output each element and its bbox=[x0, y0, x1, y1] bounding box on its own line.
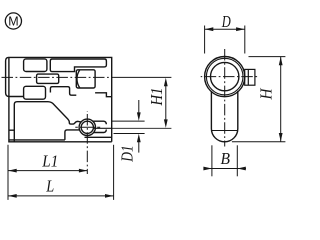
left tab bbox=[6, 57, 24, 96]
top rect T1 bbox=[24, 59, 47, 72]
bore circle bbox=[211, 62, 239, 90]
screw ball arc bbox=[77, 70, 80, 88]
stem chord bbox=[212, 130, 238, 132]
head outer circle bbox=[205, 57, 245, 97]
slot mid line inside body bbox=[94, 127, 112, 129]
center rect C1 bbox=[37, 74, 59, 83]
dimension D1 arrows bbox=[138, 100, 140, 153]
svg-text:H1: H1 bbox=[147, 88, 166, 107]
svg-text:L: L bbox=[45, 176, 54, 195]
svg-text:M: M bbox=[8, 14, 18, 28]
svg-text:D1: D1 bbox=[118, 145, 137, 162]
extension lines for D1 bbox=[112, 121, 172, 133]
boss outer circle bbox=[79, 119, 95, 135]
stepped bar T2 bbox=[50, 59, 106, 72]
centerlines right view bbox=[201, 49, 259, 147]
pocket diagonal + saddle bbox=[48, 102, 81, 124]
svg-text:D: D bbox=[221, 12, 231, 31]
dimension L1 bbox=[8, 145, 114, 200]
svg-text:B: B bbox=[220, 149, 230, 168]
dimension D bbox=[205, 26, 245, 54]
svg-text:H: H bbox=[257, 88, 276, 101]
material symbol M bbox=[5, 13, 21, 29]
bottom-left tick bbox=[9, 129, 14, 131]
svg-text:L1: L1 bbox=[41, 152, 58, 171]
head ring bbox=[206, 58, 243, 95]
dimension B bbox=[204, 145, 246, 176]
hole inner circle bbox=[81, 121, 93, 133]
slot top line right of boss, rounded end bbox=[93, 121, 107, 124]
line right of pocket bbox=[95, 93, 112, 97]
slot bottom line right of boss, rounded end bbox=[94, 130, 107, 133]
dimension L bbox=[8, 194, 17, 198]
jaw tip bbox=[65, 130, 80, 140]
body outline bbox=[9, 57, 112, 141]
dimension H1 bbox=[165, 85, 167, 122]
screw pocket square bbox=[76, 70, 95, 88]
centerline left view bbox=[2, 77, 172, 174]
pocket left wall bbox=[14, 102, 48, 142]
stepped shape B bbox=[50, 87, 76, 96]
clamping screw head bbox=[245, 69, 255, 85]
rect A bbox=[24, 86, 46, 99]
dimension H bbox=[232, 57, 286, 142]
line under boss bbox=[85, 136, 112, 138]
inner bottom line bbox=[9, 139, 65, 141]
stem bbox=[211, 91, 237, 142]
